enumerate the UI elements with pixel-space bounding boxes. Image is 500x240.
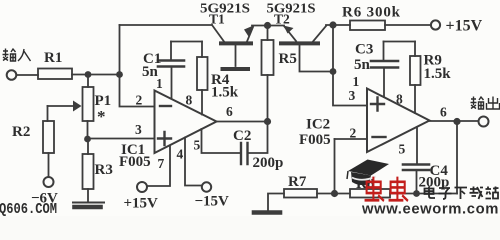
- resistor R9 lead to IC2 pin 8: [414, 85, 416, 113]
- resistor R5: [262, 40, 274, 75]
- P1 wiper arrow: [48, 105, 74, 107]
- terminal circle output: [479, 117, 489, 127]
- transistor T1 base end bar: [223, 67, 249, 71]
- svg-text:8: 8: [396, 92, 403, 107]
- capacitor C3 plates: [371, 60, 398, 63]
- capacitor C2 right lead: [249, 122, 268, 154]
- capacitor C4 plates: [403, 163, 429, 166]
- input terminal circle: [7, 70, 17, 80]
- svg-text:5: 5: [194, 138, 201, 153]
- svg-text:5n: 5n: [354, 57, 371, 73]
- resistor R9 lead top: [414, 42, 416, 57]
- svg-text:5G921S: 5G921S: [200, 1, 250, 16]
- node A junction dot: [85, 71, 92, 78]
- wire node E down to IC2 pin 3: [333, 25, 367, 106]
- resistor R4 lead to IC1 pin 8: [201, 90, 203, 115]
- resistor R4 lead top: [201, 42, 203, 58]
- ground under R7: [254, 210, 280, 215]
- node D junction dot: [264, 22, 271, 29]
- svg-text:R2: R2: [12, 124, 30, 140]
- IC2 output wire pin 6: [430, 120, 479, 122]
- svg-text:1.5k: 1.5k: [424, 66, 452, 82]
- capacitor C4 bottom lead: [416, 171, 418, 194]
- IC1 pin 4 wire: [185, 138, 202, 186]
- resistor R7: [284, 189, 317, 198]
- IC1 minus sign: [160, 105, 171, 107]
- transistor T1 collector wire: [212, 25, 224, 42]
- capacitor C1 top lead: [170, 42, 172, 60]
- wire R2 to -6V terminal: [48, 153, 50, 177]
- wire P1 bottom to node C: [87, 121, 89, 139]
- svg-text:6: 6: [226, 104, 233, 119]
- wire R2 top: [47, 106, 49, 121]
- IC2 plus sign: [371, 98, 384, 111]
- IC1 pin 7 wire: [147, 146, 170, 187]
- capacitor C3 top wire: [384, 41, 416, 43]
- svg-text:R7: R7: [288, 174, 307, 190]
- transistor T1 base bar: [221, 41, 251, 45]
- wire R1 to node B: [72, 74, 120, 76]
- watermark 电子下载站 hand-drawn glyphs: [425, 187, 499, 200]
- label 输入 (input) hand-drawn glyphs: [3, 49, 31, 62]
- wire R3 to ground: [87, 189, 89, 202]
- capacitor C2 left lead to IC1 pin 5: [202, 129, 242, 153]
- transistor T2 base bar: [281, 41, 318, 45]
- label 输出 (output) hand-drawn glyphs: [471, 97, 500, 110]
- resistor R5 lead top: [267, 26, 269, 41]
- node F junction dot: [330, 68, 337, 75]
- wire T2 collector to node E: [326, 24, 350, 26]
- capacitor C1 top wire: [171, 41, 202, 43]
- IC2 minus sign: [373, 136, 386, 138]
- wire feedback top: [120, 24, 213, 26]
- potentiometer P1 body: [83, 87, 94, 121]
- svg-text:3: 3: [135, 122, 142, 137]
- wire R8 to output node: [390, 193, 457, 195]
- svg-text:8: 8: [186, 93, 193, 108]
- transistor T2 emitter arrow: [284, 26, 294, 34]
- svg-text:4: 4: [177, 147, 184, 162]
- svg-text:Q606.COM: Q606.COM: [0, 202, 57, 216]
- transistor T2 collector wire: [313, 26, 326, 42]
- transistor T1 emitter arrow: [244, 26, 254, 37]
- wire T1 emitter to node D: [252, 25, 284, 27]
- node C junction dot: [84, 136, 91, 143]
- capacitor C1 plates: [158, 59, 184, 62]
- wire ground to R7: [268, 194, 284, 211]
- svg-text:www.eeworm.com: www.eeworm.com: [361, 202, 499, 217]
- IC1 output wire pin 6: [217, 121, 268, 123]
- node B junction dot: [116, 71, 123, 78]
- resistor R4: [197, 57, 208, 90]
- svg-text:+15V: +15V: [124, 196, 159, 212]
- svg-text:C3: C3: [355, 42, 373, 58]
- svg-text:R6 300k: R6 300k: [342, 5, 401, 21]
- svg-text:−15V: −15V: [195, 194, 230, 210]
- svg-text:T2: T2: [274, 12, 290, 27]
- terminal circle -15V: [202, 182, 211, 191]
- svg-text:R5: R5: [279, 51, 297, 67]
- svg-text:6: 6: [440, 105, 447, 120]
- svg-text:IC2: IC2: [306, 117, 330, 133]
- wire output node down: [456, 122, 458, 194]
- op-amp IC1: [155, 91, 217, 154]
- svg-text:1: 1: [353, 74, 360, 89]
- op-amp IC2: [367, 89, 430, 153]
- transistor T1 base lead: [235, 45, 237, 66]
- watermark graduation cap: [347, 160, 389, 186]
- svg-text:F005: F005: [299, 132, 331, 148]
- wire R6 to +15V terminal: [385, 24, 431, 26]
- svg-text:1.5k: 1.5k: [211, 85, 239, 101]
- wire node B up to feedback loop: [119, 25, 121, 75]
- svg-text:3: 3: [349, 88, 356, 103]
- wire input to R1: [17, 74, 39, 76]
- svg-text:C2: C2: [233, 128, 251, 144]
- capacitor C3 top lead: [383, 42, 385, 60]
- capacitor C2 plates: [241, 143, 248, 164]
- resistor R3: [83, 154, 94, 189]
- svg-text:1: 1: [156, 76, 163, 91]
- node I junction dot: [453, 118, 460, 125]
- svg-text:200p: 200p: [253, 155, 284, 171]
- svg-text:R3: R3: [95, 162, 113, 178]
- transistor T1 emitter wire: [247, 27, 253, 42]
- terminal circle +15V left: [137, 182, 147, 192]
- resistor R5 lead bottom: [267, 75, 269, 122]
- terminal circle -6V: [44, 177, 54, 187]
- svg-text:2: 2: [350, 126, 357, 141]
- node G junction dot: [264, 118, 271, 125]
- svg-text:5: 5: [399, 142, 406, 157]
- node H junction dot: [331, 190, 338, 197]
- svg-text:2: 2: [136, 93, 143, 108]
- resistor R9: [410, 56, 421, 85]
- ground under R3: [73, 202, 104, 204]
- IC1 plus sign: [158, 132, 171, 145]
- transistor T2 emitter wire: [284, 26, 296, 41]
- terminal circle +15V right: [431, 20, 440, 29]
- wire R7 to node H: [317, 193, 350, 195]
- IC2 pin 2 wire: [335, 138, 368, 140]
- resistor R2: [43, 121, 54, 153]
- resistor R8: [350, 189, 390, 198]
- watermark 虫虫 red glyphs: [365, 177, 408, 202]
- capacitor C1 bottom lead to IC1 pin 1: [171, 68, 173, 99]
- wire node B down to IC1 pin 2: [120, 75, 155, 107]
- transistor T2 base lead: [300, 45, 334, 72]
- svg-text:R1: R1: [44, 50, 62, 66]
- svg-text:F005: F005: [119, 154, 151, 170]
- wire node A down to P1: [87, 75, 89, 88]
- resistor R6: [350, 21, 385, 31]
- node J junction dot: [413, 190, 420, 197]
- resistor R1: [38, 69, 72, 80]
- wire node C to IC1 pin 3: [88, 138, 155, 140]
- svg-text:7: 7: [158, 156, 165, 171]
- svg-text:+15V: +15V: [446, 18, 483, 35]
- node E junction dot: [329, 21, 336, 28]
- svg-text:T1: T1: [209, 12, 225, 27]
- svg-text:*: *: [97, 107, 106, 126]
- wire IC2 pin2 down to node H: [334, 139, 336, 194]
- capacitor C3 bottom lead to IC2 pin 1: [383, 69, 385, 97]
- IC2 pin 5 lead: [416, 127, 418, 163]
- wire node C down to R3: [87, 139, 89, 154]
